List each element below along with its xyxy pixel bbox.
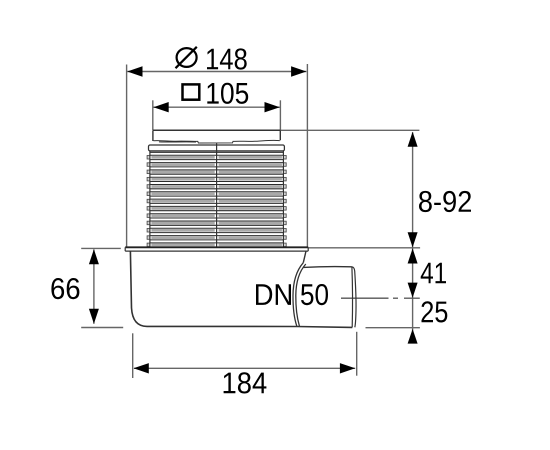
label DN bbox=[256, 284, 291, 305]
diameter symbol bbox=[176, 47, 197, 68]
sq105 right arrow bbox=[265, 102, 280, 112]
label 148 bbox=[207, 48, 247, 69]
rib 2 bbox=[147, 163, 150, 167]
rib 9 bbox=[147, 214, 150, 218]
rib 4 bbox=[147, 177, 150, 181]
sq105 left extension line bbox=[152, 100, 154, 130]
flange bottom bbox=[125, 250, 308, 252]
bowl-pipe S-curve inner bbox=[296, 264, 306, 326]
pipe end inner line bbox=[351, 267, 354, 328]
184 left extension line bbox=[132, 333, 134, 378]
label 8-92 bbox=[419, 191, 471, 212]
sq105 left arrow bbox=[153, 102, 168, 112]
8-92 top extension line bbox=[280, 129, 419, 131]
8-92 bottom arrow bbox=[408, 232, 418, 247]
riser right edge bbox=[282, 151, 284, 247]
flange top bbox=[125, 246, 308, 248]
rib 7 bbox=[147, 199, 150, 203]
184 left arrow bbox=[134, 363, 149, 373]
25 bottom extension line (pipe bottom) bbox=[366, 327, 420, 329]
rib 1 bbox=[147, 156, 150, 160]
66 dimension line bbox=[93, 249, 95, 323]
sq105 right extension line bbox=[279, 100, 281, 130]
right vertical dimension line bbox=[412, 132, 414, 343]
grate wavy break line bbox=[154, 140, 280, 143]
25 bottom outside arrow bbox=[408, 329, 418, 344]
d148 right extension line bbox=[306, 64, 308, 247]
label 66 bbox=[51, 278, 79, 299]
66 top arrow bbox=[89, 249, 99, 264]
grate wavy doubled line bbox=[159, 141, 196, 143]
66 bottom arrow bbox=[89, 309, 99, 324]
66 top extension line bbox=[81, 247, 121, 249]
collar frame bbox=[149, 145, 285, 151]
d148 left arrow bbox=[127, 66, 142, 76]
rib 3 bbox=[147, 170, 150, 174]
d148 right arrow bbox=[291, 66, 306, 76]
bowl left wall and bottom bbox=[130, 251, 352, 327]
66 bottom extension line bbox=[81, 327, 123, 329]
riser cap right edge bbox=[279, 130, 281, 140]
41 bottom arrow bbox=[408, 283, 418, 298]
184 right arrow bbox=[340, 363, 355, 373]
label 184 bbox=[224, 372, 267, 393]
rib 10 bbox=[147, 221, 150, 225]
riser cap top edge bbox=[153, 129, 280, 131]
rib 11 bbox=[147, 229, 150, 233]
sq105 dimension line bbox=[153, 106, 279, 108]
8-92 top arrow bbox=[408, 132, 418, 147]
41 top extension line (flange top) bbox=[308, 247, 420, 249]
41 top arrow bbox=[408, 248, 418, 263]
184 dimension line bbox=[134, 367, 355, 369]
rib 8 bbox=[147, 207, 150, 211]
label 50 bbox=[301, 284, 328, 305]
flange left edge bbox=[124, 247, 126, 251]
riser cap left edge bbox=[152, 130, 154, 141]
rib 12 bbox=[147, 236, 150, 240]
flange right edge bbox=[307, 247, 309, 251]
rib 13 bbox=[147, 243, 150, 247]
label 25 bbox=[422, 301, 448, 322]
pipe end outer line bbox=[352, 267, 356, 328]
bowl-pipe S-curve outer bbox=[293, 263, 303, 327]
bowl right wall bbox=[303, 251, 306, 262]
square symbol bbox=[183, 84, 200, 99]
label 41 bbox=[421, 263, 446, 284]
d148 left extension line bbox=[126, 65, 128, 248]
pipe centerline dash-dot bbox=[341, 297, 420, 299]
pipe top edge bbox=[303, 266, 352, 269]
riser center seam line bbox=[216, 144, 218, 247]
d148 dimension line bbox=[127, 71, 306, 73]
184 right extension line bbox=[356, 332, 358, 376]
label 105 bbox=[207, 83, 248, 104]
riser left edge bbox=[149, 151, 151, 247]
riser ribs bbox=[147, 152, 286, 246]
rib 6 bbox=[147, 192, 150, 196]
rib 5 bbox=[147, 185, 150, 189]
